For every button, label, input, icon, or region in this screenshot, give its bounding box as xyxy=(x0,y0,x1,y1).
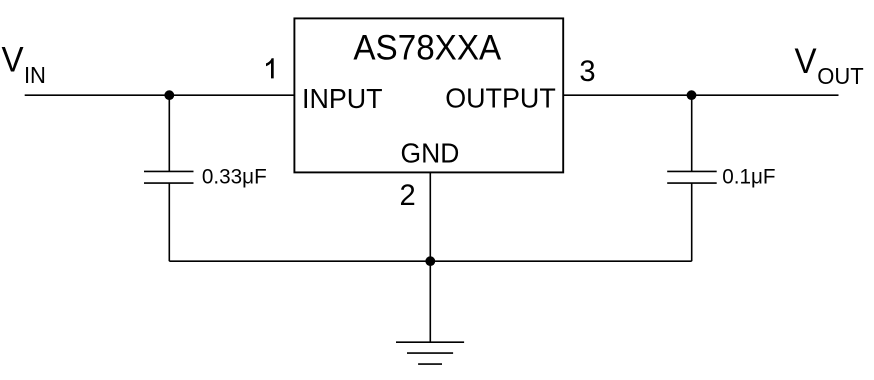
wire: pin 2 (GND) from IC to ground rail xyxy=(429,172,431,261)
capacitor C1 plates xyxy=(144,171,194,183)
IC U1 AS78XXA body xyxy=(294,18,563,172)
svg-text:AS78XXA: AS78XXA xyxy=(353,27,501,67)
svg-text:V: V xyxy=(794,41,816,81)
svg-text:0.1μF: 0.1μF xyxy=(722,164,775,189)
wire: junction to C1 top plate xyxy=(168,95,170,171)
wire: junction to C2 top plate xyxy=(691,95,693,171)
junction node: input rail / C1 xyxy=(164,90,174,100)
svg-text:2: 2 xyxy=(399,180,415,212)
svg-text:IN: IN xyxy=(24,62,46,88)
svg-text:OUT: OUT xyxy=(817,63,863,89)
wire: C2 bottom plate to ground rail xyxy=(691,183,693,261)
wire: C1 bottom plate to ground rail xyxy=(168,183,170,261)
ground symbol xyxy=(396,342,464,364)
wire: ground rail to earth symbol xyxy=(429,261,431,342)
svg-text:V: V xyxy=(1,40,23,80)
svg-text:GND: GND xyxy=(401,138,460,169)
pin number 1 xyxy=(266,58,274,78)
wire: pin 3 to VOUT (output rail) xyxy=(563,94,838,96)
junction node: ground rail / pin 2 xyxy=(425,256,435,266)
wire: VIN to pin 1 (input rail) xyxy=(25,94,295,96)
node VOUT label xyxy=(794,41,863,89)
svg-text:INPUT: INPUT xyxy=(302,83,383,114)
svg-text:0.33μF: 0.33μF xyxy=(202,164,267,189)
capacitor C2 plates xyxy=(667,171,717,183)
svg-text:OUTPUT: OUTPUT xyxy=(445,83,556,114)
wire: ground rail (bottom) xyxy=(169,260,691,262)
junction node: output rail / C2 xyxy=(687,90,697,100)
svg-text:3: 3 xyxy=(579,56,595,88)
node VIN label xyxy=(1,40,46,88)
